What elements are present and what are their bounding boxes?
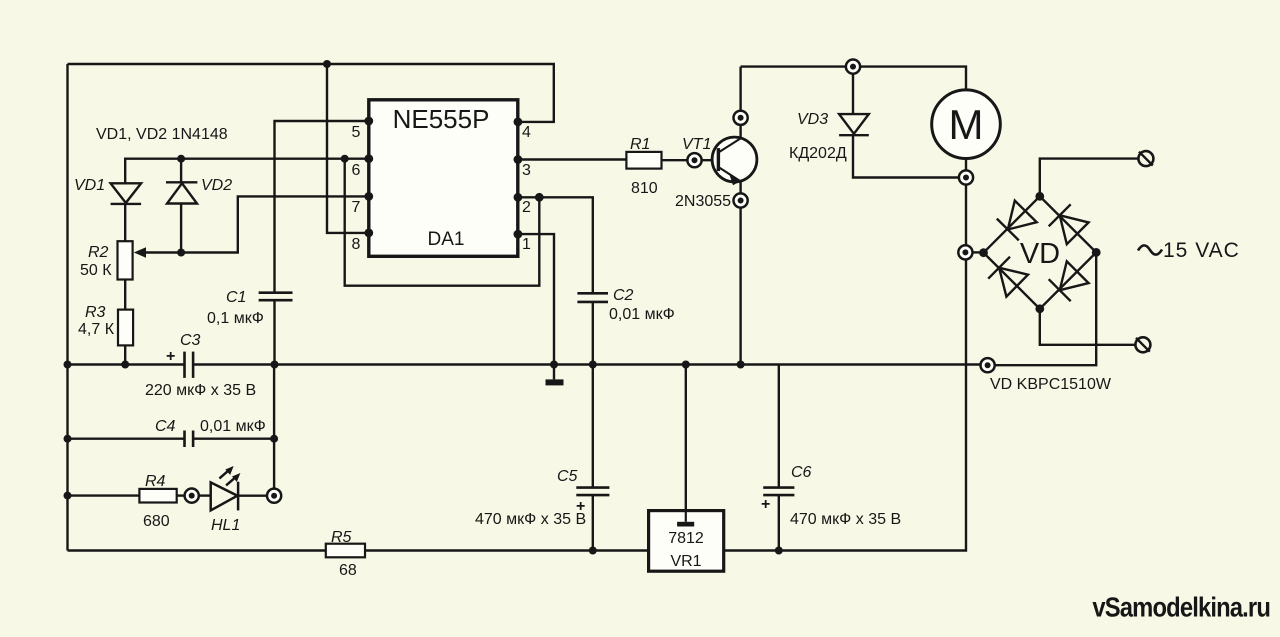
svg-text:680: 680 <box>143 513 170 530</box>
svg-text:68: 68 <box>339 562 357 579</box>
svg-text:+: + <box>761 496 770 513</box>
svg-text:0,01 мкФ: 0,01 мкФ <box>609 306 675 323</box>
svg-text:5: 5 <box>352 124 361 141</box>
svg-text:15 VAC: 15 VAC <box>1163 239 1240 262</box>
svg-text:HL1: HL1 <box>211 517 240 534</box>
svg-text:8: 8 <box>352 236 361 253</box>
svg-text:0,1 мкФ: 0,1 мкФ <box>207 310 264 327</box>
svg-text:M: M <box>949 101 984 148</box>
svg-text:R2: R2 <box>88 244 109 261</box>
svg-text:NE555P: NE555P <box>393 104 490 134</box>
svg-text:2: 2 <box>522 199 531 216</box>
svg-text:vSamodelkina.ru: vSamodelkina.ru <box>1092 591 1270 623</box>
svg-text:7812: 7812 <box>668 530 704 547</box>
svg-text:VR1: VR1 <box>670 553 701 570</box>
svg-text:VD2: VD2 <box>201 177 232 194</box>
svg-text:R4: R4 <box>145 473 166 490</box>
svg-text:+: + <box>166 348 175 365</box>
svg-text:C1: C1 <box>226 289 246 306</box>
svg-text:50 К: 50 К <box>80 262 112 279</box>
svg-text:6: 6 <box>352 162 361 179</box>
svg-text:C4: C4 <box>155 418 176 435</box>
svg-text:470 мкФ х 35 В: 470 мкФ х 35 В <box>790 511 901 528</box>
svg-text:C5: C5 <box>557 468 578 485</box>
svg-text:R5: R5 <box>331 529 352 546</box>
svg-text:VD: VD <box>1020 238 1060 270</box>
svg-text:R3: R3 <box>85 304 106 321</box>
svg-text:VD1: VD1 <box>74 177 105 194</box>
svg-text:2N3055: 2N3055 <box>675 193 731 210</box>
svg-text:R1: R1 <box>630 136 650 153</box>
svg-text:7: 7 <box>352 199 361 216</box>
svg-text:DA1: DA1 <box>428 229 465 250</box>
svg-text:C2: C2 <box>613 287 634 304</box>
svg-text:4: 4 <box>522 124 531 141</box>
svg-text:C3: C3 <box>180 332 201 349</box>
svg-text:220 мкФ х 35 В: 220 мкФ х 35 В <box>145 382 256 399</box>
svg-text:4,7 К: 4,7 К <box>78 321 115 338</box>
svg-text:3: 3 <box>522 162 531 179</box>
svg-text:VD3: VD3 <box>797 111 828 128</box>
svg-text:810: 810 <box>631 180 658 197</box>
svg-text:C6: C6 <box>791 464 812 481</box>
svg-text:470 мкФ x 35 В: 470 мкФ x 35 В <box>475 511 586 528</box>
svg-text:0,01 мкФ: 0,01 мкФ <box>200 418 266 435</box>
svg-text:VD KBPC1510W: VD KBPC1510W <box>990 376 1112 393</box>
svg-text:VT1: VT1 <box>682 136 711 153</box>
svg-text:КД202Д: КД202Д <box>789 145 847 162</box>
svg-text:1: 1 <box>522 236 531 253</box>
svg-text:VD1, VD2 1N4148: VD1, VD2 1N4148 <box>96 126 228 143</box>
